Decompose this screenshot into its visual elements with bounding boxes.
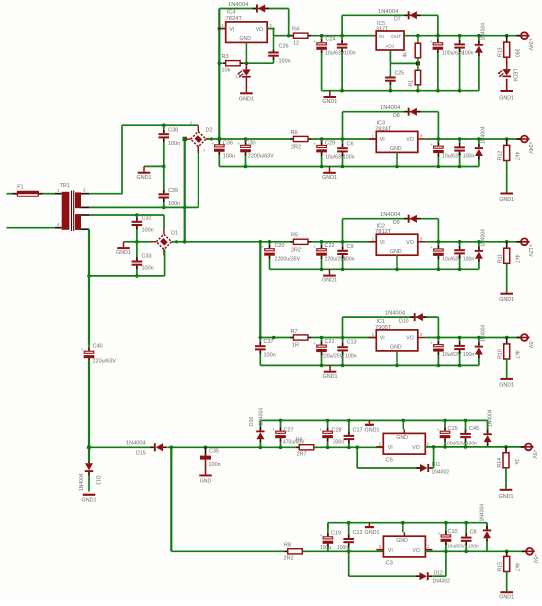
- wire rail5 bus: [260, 419, 487, 421]
- svg-text:F1: F1: [17, 185, 23, 191]
- capacitor out 100n: [458, 137, 462, 141]
- capacitor C36 100u: [218, 139, 220, 141]
- svg-text:1N4004: 1N4004: [481, 229, 487, 247]
- wire bypass corners: [342, 112, 344, 139]
- svg-text:220u/63V: 220u/63V: [93, 359, 117, 365]
- svg-text:100n: 100n: [466, 441, 477, 447]
- diode D15 1N4004: [150, 446, 154, 448]
- wire C5 gnd pin: [402, 420, 404, 429]
- svg-text:C30: C30: [246, 140, 256, 146]
- svg-text:GND: GND: [200, 479, 212, 485]
- svg-text:VO: VO: [412, 548, 420, 554]
- wire D1 left: [137, 241, 151, 243]
- svg-text:+: +: [438, 531, 441, 536]
- capacitor C22 220u/25V: [320, 240, 324, 244]
- svg-text:R5: R5: [291, 233, 298, 239]
- svg-text:C6: C6: [347, 142, 354, 148]
- svg-text:VO: VO: [412, 445, 420, 451]
- wire ADJ: [389, 50, 391, 63]
- svg-text:R15: R15: [498, 562, 504, 572]
- svg-text:1N4004: 1N4004: [385, 310, 406, 316]
- node C38/C39 mid: [162, 165, 166, 169]
- svg-text:D2: D2: [206, 128, 213, 134]
- resistor R8 2R2: [285, 550, 288, 552]
- wire IC4 VO jog: [267, 28, 273, 30]
- capacitor C2 100u/63V out: [436, 34, 440, 38]
- wire IC2 output: [425, 241, 520, 243]
- diode D11 1N4002: [429, 467, 433, 469]
- svg-text:GND: GND: [396, 435, 408, 441]
- svg-text:R3: R3: [222, 54, 229, 60]
- svg-text:VI: VI: [229, 27, 234, 33]
- svg-text:C19: C19: [331, 531, 341, 537]
- svg-text:R1: R1: [409, 80, 415, 87]
- svg-text:C40: C40: [93, 344, 103, 350]
- svg-text:220u/25V: 220u/25V: [321, 354, 344, 360]
- svg-text:VO: VO: [406, 137, 414, 143]
- diode D8 1N4004: [404, 111, 408, 113]
- svg-text:1N4004: 1N4004: [481, 23, 487, 41]
- capacitor C20 2200u/35V: [268, 240, 272, 244]
- svg-text:R7: R7: [291, 329, 298, 335]
- capacitor out 100n: [458, 336, 462, 340]
- diode D7 1N4004: [404, 14, 408, 16]
- resistor R7 1R: [290, 337, 293, 339]
- svg-text:100n: 100n: [343, 155, 355, 161]
- diode D16 reverse: [259, 446, 263, 450]
- svg-text:1N4002: 1N4002: [432, 470, 450, 476]
- svg-text:C38: C38: [168, 128, 178, 134]
- svg-text:390: 390: [514, 49, 520, 58]
- wire rail5 feed: [89, 446, 153, 448]
- svg-text:4k7: 4k7: [514, 350, 520, 358]
- svg-text:100n: 100n: [142, 266, 154, 272]
- capacitor C40: [88, 345, 90, 348]
- wire rail3 main: [172, 241, 185, 243]
- wire D7 left corner: [341, 15, 343, 35]
- svg-text:4k7: 4k7: [514, 152, 520, 160]
- svg-text:C22: C22: [325, 243, 335, 249]
- svg-text:C26: C26: [279, 44, 289, 50]
- svg-text:VO: VO: [406, 240, 414, 246]
- wire bypass corners: [342, 317, 344, 337]
- svg-text:IN: IN: [379, 34, 384, 40]
- terminal +5V rail5: [521, 446, 525, 448]
- svg-text:VI: VI: [380, 336, 385, 342]
- wire rail6 feed: [171, 550, 288, 552]
- svg-text:C28: C28: [332, 428, 342, 434]
- svg-text:100n: 100n: [264, 353, 276, 359]
- svg-text:1R: 1R: [292, 343, 299, 349]
- svg-text:1N4004: 1N4004: [480, 504, 486, 522]
- svg-text:+: +: [430, 341, 433, 346]
- wire IC3 output: [425, 138, 520, 140]
- svg-text:330n: 330n: [333, 440, 344, 446]
- wire rail1 top loop: [219, 8, 288, 10]
- svg-text:+: +: [81, 347, 84, 352]
- wire IC1 output: [425, 337, 520, 339]
- svg-text:+24V: +24V: [527, 38, 533, 51]
- regulator C5 dc-dc: [383, 433, 425, 454]
- capacitor C17 100n: [347, 419, 351, 423]
- svg-text:10k: 10k: [222, 68, 231, 74]
- terminal +12V: [517, 241, 521, 243]
- capacitor out 10u: [437, 137, 441, 141]
- svg-text:7824T: 7824T: [226, 16, 243, 22]
- svg-text:D10: D10: [399, 319, 409, 325]
- svg-text:R12: R12: [498, 151, 504, 161]
- svg-text:+: +: [430, 245, 433, 250]
- svg-text:GND1: GND1: [322, 99, 337, 105]
- svg-text:GND: GND: [390, 249, 402, 255]
- svg-text:C32: C32: [142, 216, 152, 222]
- wire IC4 GND pin: [245, 42, 247, 63]
- node D1 AC mid: [135, 240, 139, 244]
- wire IC4 VI: [218, 27, 222, 31]
- diode vertical out: [477, 137, 481, 141]
- svg-text:100n: 100n: [343, 257, 355, 263]
- wire rail6 bus: [328, 522, 487, 524]
- svg-text:L1: L1: [236, 74, 242, 79]
- wire D7 right corner: [437, 15, 439, 35]
- resistor R3 10k: [218, 61, 222, 65]
- ground GND1 bottom left: [83, 494, 96, 496]
- svg-text:VO: VO: [256, 27, 264, 33]
- svg-text:GND1: GND1: [116, 250, 131, 256]
- wire rail6 output: [425, 550, 525, 552]
- svg-text:C25: C25: [395, 71, 405, 77]
- svg-text:1N4004: 1N4004: [488, 409, 494, 427]
- svg-text:2R2: 2R2: [291, 248, 301, 254]
- svg-text:C10: C10: [448, 529, 458, 535]
- terminal +24V rail1: [517, 35, 521, 37]
- svg-text:4k7: 4k7: [403, 49, 409, 57]
- resistor R8 4k7: [416, 34, 420, 38]
- wire fuse to TR1 pin1: [39, 193, 43, 195]
- svg-text:GND1: GND1: [499, 297, 514, 303]
- svg-text:C39: C39: [168, 188, 178, 194]
- svg-text:GND1: GND1: [82, 498, 97, 504]
- node C24: [320, 34, 324, 38]
- wire GND tap: [144, 165, 164, 167]
- node C4 100n: [340, 34, 344, 38]
- svg-text:10u/63V 100n: 10u/63V 100n: [442, 256, 474, 262]
- diode D10 1N4004: [410, 316, 414, 318]
- capacitor out 10u: [437, 240, 441, 244]
- wire IC3 GND pin: [396, 152, 398, 166]
- capacitor C8 100n: [464, 521, 468, 525]
- svg-text:1N4004: 1N4004: [481, 126, 487, 144]
- svg-text:VI: VI: [388, 548, 393, 554]
- wire D7 bypass: [342, 14, 438, 16]
- svg-text:C8: C8: [470, 530, 477, 536]
- svg-text:12: 12: [293, 41, 299, 47]
- svg-text:2200u/63V: 2200u/63V: [248, 154, 274, 160]
- diode zener rail1: [477, 34, 481, 38]
- wire R11 to gnd: [506, 263, 508, 292]
- svg-text:1N4004: 1N4004: [79, 473, 85, 491]
- svg-text:VO: VO: [406, 336, 414, 342]
- capacitor C12 100n: [347, 521, 351, 525]
- svg-text:100u: 100u: [320, 545, 331, 551]
- ground GND1 at D1: [123, 242, 125, 247]
- svg-text:R6: R6: [291, 130, 298, 136]
- resistor R11 4k7: [505, 240, 509, 244]
- wire bypass5 drop: [355, 446, 359, 450]
- svg-text:1N4004: 1N4004: [259, 408, 265, 426]
- ground bus rail3: [270, 268, 479, 270]
- svg-text:GND1: GND1: [323, 374, 338, 380]
- wire sec1 top to bridge D2: [89, 193, 122, 195]
- diode vertical out: [477, 240, 481, 244]
- svg-text:+: +: [313, 39, 316, 44]
- svg-text:1N4004: 1N4004: [380, 212, 401, 218]
- capacitor C45 100n: [464, 419, 468, 423]
- svg-text:IC4: IC4: [227, 10, 236, 16]
- svg-text:100n: 100n: [462, 51, 474, 57]
- svg-text:+: +: [313, 341, 316, 346]
- wire mains N to TR1 pin4: [7, 227, 56, 229]
- svg-text:GND1: GND1: [499, 382, 514, 388]
- svg-text:GND1: GND1: [365, 530, 380, 536]
- node rail6 drop: [170, 446, 174, 450]
- node C39 bottom: [162, 206, 166, 210]
- ground GND1 under LED1: [245, 78, 247, 93]
- svg-text:GND: GND: [390, 345, 402, 351]
- svg-text:+: +: [313, 141, 316, 146]
- resistor R4: [290, 35, 293, 37]
- svg-text:C35: C35: [209, 449, 219, 455]
- svg-text:R9: R9: [296, 438, 303, 444]
- resistor R12 4k7: [505, 137, 509, 141]
- wire R12 to gnd: [506, 161, 508, 193]
- ground GND1 rail1: [329, 91, 331, 96]
- svg-text:C12: C12: [353, 530, 363, 536]
- svg-text:10u/63V 100n: 10u/63V 100n: [442, 352, 474, 358]
- svg-text:100n: 100n: [279, 59, 291, 65]
- svg-text:VI: VI: [380, 137, 385, 143]
- wire sec1 bottom: [89, 206, 199, 208]
- capacitor C9 100n: [341, 240, 345, 244]
- svg-text:D13: D13: [95, 476, 101, 485]
- capacitor out 100n: [458, 240, 462, 244]
- svg-text:D9: D9: [393, 220, 400, 226]
- capacitor C32: [136, 215, 138, 217]
- capacitor C6 100n: [341, 137, 345, 141]
- wire sec2 bottom down: [88, 229, 90, 344]
- wire R14 to gnd: [505, 468, 507, 489]
- svg-text:C27: C27: [284, 428, 294, 434]
- svg-text:R10: R10: [498, 349, 504, 359]
- svg-text:+: +: [313, 245, 316, 250]
- svg-text:C13: C13: [347, 340, 357, 346]
- svg-text:D7: D7: [394, 17, 401, 23]
- svg-text:100n: 100n: [209, 462, 221, 468]
- wire feed vertical to D1: [184, 139, 186, 242]
- wire bypass D9: [343, 218, 439, 220]
- svg-text:1N4004: 1N4004: [378, 9, 399, 15]
- svg-text:2: 2: [190, 121, 192, 125]
- ground GND1 rail5: [368, 420, 370, 423]
- svg-text:1N4004: 1N4004: [228, 2, 249, 8]
- wire sec2 top: [89, 214, 137, 216]
- svg-text:10u/63V 100n: 10u/63V 100n: [442, 154, 474, 160]
- wire C3 gnd pin: [402, 523, 404, 533]
- ground GND1 rail6: [368, 523, 370, 526]
- svg-text:C45: C45: [469, 426, 479, 432]
- svg-text:2R2: 2R2: [284, 556, 294, 562]
- svg-text:GND1: GND1: [322, 278, 337, 284]
- svg-text:1N4004: 1N4004: [481, 325, 487, 343]
- svg-text:+: +: [320, 533, 323, 538]
- svg-text:C37: C37: [264, 339, 274, 345]
- svg-text:100n: 100n: [344, 51, 356, 57]
- bridge rectifier D2: [191, 132, 206, 147]
- svg-text:C3: C3: [386, 561, 393, 567]
- svg-text:100n: 100n: [168, 201, 180, 207]
- diode D13 to gnd: [88, 447, 90, 461]
- svg-text:R13: R13: [498, 47, 504, 57]
- wire bridge D2 AC2 drop: [197, 146, 199, 207]
- svg-text:GND1: GND1: [499, 595, 514, 601]
- terminal +24V: [517, 138, 521, 140]
- wire bypass6 drop: [348, 551, 350, 576]
- svg-text:R14: R14: [497, 458, 503, 468]
- svg-text:C24: C24: [326, 37, 336, 43]
- svg-text:2R2: 2R2: [291, 145, 301, 151]
- svg-text:GND1: GND1: [365, 428, 380, 434]
- wire R15 to gnd: [506, 572, 508, 592]
- fuse F1: [13, 193, 17, 195]
- capacitor C27 470u/63V: [279, 419, 283, 423]
- svg-text:+: +: [272, 427, 275, 432]
- resistor R13 390: [505, 34, 509, 38]
- svg-text:R4: R4: [292, 27, 299, 33]
- capacitor C4 100n input: [341, 36, 343, 40]
- svg-text:+12V: +12V: [527, 244, 533, 257]
- wire bypass D8: [343, 111, 439, 113]
- svg-text:C20: C20: [275, 243, 285, 249]
- wire D1 bottom return: [164, 250, 166, 276]
- resistor R15: [505, 550, 509, 554]
- svg-text:C21: C21: [325, 339, 335, 345]
- svg-text:D15: D15: [136, 451, 146, 457]
- svg-text:+: +: [430, 39, 433, 44]
- svg-text:1k: 1k: [513, 459, 519, 465]
- capacitor C37 100n: [259, 338, 261, 342]
- wire bypass corners: [342, 219, 344, 242]
- svg-text:VI: VI: [388, 445, 393, 451]
- wire bypass D10: [343, 316, 439, 318]
- svg-text:GND1: GND1: [137, 175, 152, 181]
- svg-text:GND1: GND1: [499, 494, 514, 500]
- svg-text:100n: 100n: [337, 545, 348, 551]
- svg-text:LED4: LED4: [512, 69, 518, 82]
- resistor R9 2R7: [296, 446, 299, 448]
- svg-text:C5: C5: [386, 458, 393, 464]
- wire IC2 GND pin: [396, 255, 398, 269]
- bridge rectifier D1: [156, 234, 171, 249]
- ground GND1 left-mid: [143, 166, 145, 171]
- svg-text:+5V: +5V: [531, 449, 537, 459]
- svg-text:100n: 100n: [168, 141, 180, 147]
- wire C40 to rail5 feed: [88, 360, 90, 447]
- svg-text:+: +: [261, 245, 264, 250]
- capacitor C21 220u/25V: [320, 336, 324, 340]
- svg-text:C17: C17: [353, 428, 363, 434]
- wire mains L: [7, 193, 14, 195]
- wire rail2 main: [206, 138, 219, 140]
- svg-text:VI: VI: [380, 240, 385, 246]
- LED4: [506, 57, 508, 67]
- svg-text:2200u/35V: 2200u/35V: [275, 257, 301, 263]
- svg-text:100u: 100u: [223, 154, 235, 160]
- capacitor C15 100u/63V: [443, 419, 447, 423]
- capacitor C10: [444, 521, 448, 525]
- svg-text:1N4004: 1N4004: [380, 105, 401, 111]
- svg-text:R11: R11: [498, 254, 504, 263]
- wire drop to rail6: [170, 447, 172, 551]
- capacitor C19: [327, 523, 329, 529]
- svg-text:D8: D8: [393, 113, 400, 119]
- ground GND1 rail4: [329, 365, 331, 370]
- svg-text:1N4004: 1N4004: [126, 440, 146, 446]
- diode vertical rail5: [487, 420, 489, 432]
- svg-text:OUT: OUT: [391, 34, 401, 40]
- diode vertical rail6: [486, 523, 488, 529]
- wire R3 to LED node: [243, 62, 274, 64]
- svg-text:TR1: TR1: [60, 183, 71, 189]
- svg-text:1: 1: [203, 149, 205, 153]
- svg-text:GND1: GND1: [322, 175, 337, 181]
- ground GND1 rail1 out: [506, 79, 508, 90]
- capacitor C24 10u/63V: [321, 36, 323, 39]
- node rail5 feed: [87, 445, 91, 449]
- svg-text:4k7: 4k7: [514, 255, 520, 263]
- svg-text:C33: C33: [142, 254, 152, 260]
- capacitor C26: [273, 36, 275, 50]
- svg-text:10u/63V: 10u/63V: [447, 544, 466, 550]
- capacitor C39: [163, 166, 165, 189]
- capacitor C29 10u/63V: [320, 137, 324, 141]
- wire rail1 feed vertical: [218, 9, 220, 140]
- svg-text:+: +: [211, 141, 214, 146]
- svg-text:100n: 100n: [345, 354, 357, 360]
- svg-text:+: +: [437, 427, 440, 432]
- node sec1-bottom / feed: [183, 206, 187, 210]
- diode D12 1N4002: [429, 575, 433, 577]
- wire LM317 out: [404, 35, 521, 37]
- ground GND1 rail2: [329, 167, 331, 172]
- wire R10 to gnd: [506, 359, 508, 378]
- ground bus rail4: [260, 364, 479, 366]
- terminal +5V rail6: [522, 550, 526, 552]
- capacitor C13 100n: [341, 336, 345, 340]
- svg-text:C15: C15: [448, 426, 458, 432]
- svg-text:D16: D16: [249, 417, 255, 426]
- svg-text:+: +: [237, 141, 240, 146]
- diode D5 1N4004: [253, 8, 257, 10]
- ground GND1 rail3: [329, 269, 331, 274]
- node C38 top: [162, 123, 166, 127]
- svg-text:+24V: +24V: [527, 142, 533, 155]
- wire VO vertical: [288, 9, 290, 36]
- capacitor C30 2200u/63V: [244, 137, 248, 141]
- capacitor C25: [389, 63, 391, 76]
- svg-text:GND1: GND1: [499, 197, 514, 203]
- LED1: [245, 63, 247, 69]
- resistor R5 2R2: [290, 241, 293, 243]
